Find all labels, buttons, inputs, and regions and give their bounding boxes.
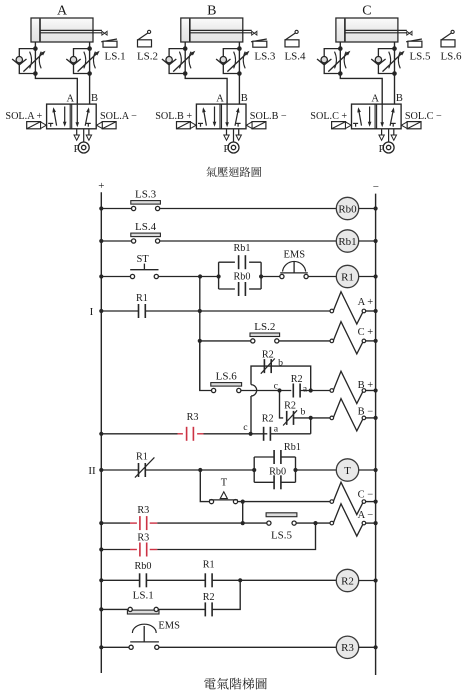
cylinder C body: [336, 18, 398, 42]
rung wire: left rail to R3 contact (red): [99, 432, 103, 436]
wire: R2-a to B+ solenoid: [300, 390, 330, 392]
svg-text:C +: C +: [358, 327, 374, 338]
wire: R2-b to B- solenoid: [294, 417, 331, 419]
svg-text:EMS: EMS: [158, 621, 180, 632]
contact Rb0 (NO): [140, 573, 147, 587]
wire: riser from rung 3 node down through rung I to LS.6 branch: [199, 277, 201, 391]
rung wire: left rail to Rb0 contact: [99, 578, 103, 582]
flow control valve (throttle + check bypass): [66, 46, 99, 75]
valve B left position flow paths: [198, 107, 216, 127]
svg-text:LS.1: LS.1: [133, 589, 154, 601]
valve B right position flow paths: [225, 104, 240, 127]
wire: left speed control to valve C port A: [340, 74, 382, 105]
wire: riser from T contact node down to A- rung: [242, 502, 244, 523]
node c (B+ branch): [277, 388, 281, 392]
wire coil Rb1 to right rail: [359, 240, 376, 242]
svg-text:LS.5: LS.5: [271, 530, 293, 542]
svg-text:R1: R1: [341, 271, 354, 283]
contact R2 (NC): [283, 410, 297, 425]
contact Rb1 (NO): [274, 450, 281, 464]
svg-text:SOL.A −: SOL.A −: [100, 111, 137, 122]
svg-text:LS.2: LS.2: [137, 50, 158, 62]
limit switch contact LS.1 (NC/closed): [127, 607, 159, 614]
svg-text:I: I: [90, 306, 94, 318]
pressure source P (valve B): [228, 129, 239, 153]
left power rail: [100, 192, 102, 673]
cylinder B piston: [189, 19, 191, 42]
svg-text:b: b: [300, 407, 305, 418]
contact R3 (NO): [140, 543, 147, 557]
cylinder C piston: [344, 19, 346, 42]
svg-text:LS.1: LS.1: [105, 50, 126, 62]
wire: R2-a to riser up to B-: [270, 433, 310, 435]
contact R2 (NO): [264, 427, 271, 441]
solenoid A+ actuator: [330, 292, 378, 324]
solenoid A− actuator: [330, 504, 378, 536]
solenoid SOL.A +: [27, 122, 47, 129]
svg-text:LS.4: LS.4: [284, 50, 306, 62]
contact R1 (NO): [139, 304, 146, 318]
wire red lead: [150, 549, 158, 551]
rung wire: EMS to coil R3: [159, 646, 336, 648]
valve A right position flow paths: [76, 104, 91, 127]
svg-text:R3: R3: [137, 532, 149, 543]
svg-text:LS.2: LS.2: [254, 321, 275, 333]
svg-text:ST: ST: [136, 254, 149, 265]
wire: LS.5 to A- solenoid: [296, 522, 330, 524]
solenoid SOL.B −: [246, 122, 266, 129]
wire: R2 contact to riser up to R2 coil rung: [212, 580, 240, 609]
5/2 valve B body: [196, 104, 246, 129]
rung wire: Rb0 to R1 contact: [146, 579, 205, 581]
wire coil R1 to right rail: [359, 276, 376, 278]
relay coil Rb1: [336, 230, 358, 252]
contact R3 (NO): [187, 427, 194, 441]
svg-text:a: a: [303, 383, 308, 394]
svg-text:B: B: [91, 93, 98, 104]
limit switch LS.3 (roller, actuated by rod): [251, 31, 267, 47]
exhaust ports (valve B): [224, 129, 242, 141]
svg-text:LS.6: LS.6: [216, 371, 238, 383]
svg-text:R1: R1: [136, 451, 148, 462]
wire: riser to LS.2: [200, 340, 251, 342]
cylinder B port stubs: [184, 42, 186, 49]
svg-text:Rb1: Rb1: [284, 442, 301, 453]
rung 2 wire: left rail to LS.4: [99, 239, 103, 243]
rung I wire: left rail to R1 contact: [99, 309, 103, 313]
wire: right speed control to valve B port B: [238, 74, 240, 105]
svg-text:A: A: [216, 94, 224, 105]
rung I wire: R1 contact to A+ solenoid: [145, 310, 330, 312]
svg-text:P: P: [223, 144, 229, 155]
svg-text:LS.3: LS.3: [254, 50, 276, 62]
svg-text:a: a: [274, 424, 279, 435]
solenoid B+ actuator: [330, 371, 378, 403]
rung wire: R3 to LS.5: [157, 522, 266, 524]
wire: riser corner to LS.6: [200, 341, 212, 391]
5/2 valve A body: [47, 104, 97, 129]
svg-text:Rb0: Rb0: [269, 467, 286, 478]
rung II wire: left rail to R1 NC contact: [99, 468, 103, 472]
relay coil T: [336, 459, 358, 481]
flow control valve (throttle + check bypass): [317, 46, 350, 75]
contact R2 (NO): [205, 602, 212, 616]
svg-text:R2: R2: [291, 374, 303, 385]
svg-text:A: A: [57, 4, 68, 19]
rung wire: left rail to EMS: [99, 645, 103, 649]
wire red lead: [197, 433, 203, 435]
svg-text:A −: A −: [358, 510, 374, 521]
svg-text:R2: R2: [284, 401, 296, 412]
cylinder C rod: [345, 29, 407, 31]
svg-text:LS.4: LS.4: [135, 221, 157, 233]
svg-text:LS.3: LS.3: [135, 189, 157, 201]
limit switch contact LS.4 (NO): [131, 233, 161, 243]
pushbutton ST (NO): [130, 264, 158, 279]
svg-text:R1: R1: [203, 559, 215, 570]
rung 2 wire: LS.4 to coil Rb1: [160, 240, 336, 242]
rung 1 wire: LS.3 to coil Rb0: [160, 208, 336, 210]
svg-text:C: C: [362, 4, 371, 19]
svg-text:B +: B +: [358, 380, 374, 391]
svg-text:Rb1: Rb1: [234, 243, 251, 254]
svg-text:Rb1: Rb1: [338, 236, 356, 248]
svg-text:C −: C −: [358, 489, 374, 500]
solenoid B− actuator: [330, 399, 378, 431]
limit switch contact LS.5 (NO): [266, 513, 297, 525]
svg-text:T: T: [344, 465, 351, 477]
right power rail: [375, 194, 377, 675]
svg-text:+: +: [98, 180, 104, 192]
rung II wire: R1 to parallel block: [145, 469, 254, 471]
rung 3 wire: ST to parallel block: [158, 276, 218, 278]
wire red lead: [150, 522, 158, 524]
contact R2 (NO): [293, 384, 300, 398]
contact Rb0 (NO): [274, 475, 281, 489]
cylinder C port stubs: [339, 42, 341, 49]
cylinder A port stubs: [34, 42, 36, 49]
svg-text:A: A: [371, 94, 379, 105]
svg-text:Rb0: Rb0: [338, 203, 357, 215]
valve A left position flow paths: [48, 107, 66, 127]
svg-text:R2: R2: [203, 592, 215, 603]
wire: LS.2 to C+ solenoid: [279, 340, 330, 342]
svg-text:P: P: [74, 144, 80, 155]
exhaust ports (valve C): [379, 129, 397, 141]
limit switch contact LS.3 (NO): [131, 201, 161, 211]
wire: riser from bottom R3 rung up to B- node: [310, 418, 312, 434]
wire red lead: [130, 522, 137, 524]
wire: LS.6 to node c: [241, 390, 291, 392]
caption: electrical ladder diagram: [204, 678, 267, 690]
svg-text:SOL.C +: SOL.C +: [310, 111, 347, 122]
rung 1 wire: left rail to LS.3: [99, 206, 103, 210]
node c2: [249, 432, 253, 436]
svg-text:SOL.B −: SOL.B −: [250, 111, 287, 122]
wire: left speed control to valve A port A: [35, 74, 77, 105]
relay coil Rb0: [336, 197, 358, 219]
rung 3 wire: block to EMS: [261, 276, 280, 278]
wire: left speed control to valve B port A: [185, 74, 227, 105]
cylinder B rod: [190, 29, 252, 31]
solenoid SOL.A −: [97, 122, 117, 129]
wire coil Rb0 to right rail: [359, 208, 376, 210]
wire: riser from rung II down to T contact: [200, 470, 209, 502]
rung 3 wire: left rail to ST: [99, 274, 103, 278]
cylinder A body: [31, 18, 93, 42]
contact R1 (NC): [135, 457, 155, 477]
limit switch LS.5 (roller, actuated by rod): [406, 31, 422, 47]
parallel block Rb1/Rb0 frame: [217, 262, 264, 289]
svg-text:c: c: [274, 380, 279, 391]
valve C right position flow paths: [380, 104, 395, 127]
rung wire: LS.1 to R2 contact: [158, 608, 205, 610]
svg-text:SOL.B +: SOL.B +: [155, 111, 192, 122]
svg-text:A: A: [67, 94, 75, 105]
limit switch LS.4 (roller lever, released): [285, 30, 299, 47]
solenoid C− actuator: [330, 482, 378, 514]
rung wire: R3 to node c2: [204, 433, 268, 435]
rung wire: left rail to R3 contact (red): [99, 521, 103, 525]
svg-text:R3: R3: [137, 505, 149, 516]
contact Rb1 (NO): [239, 255, 246, 269]
contact R2 (NC): [261, 359, 275, 374]
svg-text:T: T: [221, 477, 228, 488]
wire coil R3 to right rail: [359, 646, 376, 648]
5/2 valve C body: [352, 104, 402, 129]
pressure source P (valve C): [383, 129, 394, 153]
emergency stop EMS (NO mushroom): [129, 624, 159, 649]
svg-text:R2: R2: [262, 414, 274, 425]
limit switch contact LS.2 (NO): [250, 333, 280, 343]
flow control valve (throttle + check bypass): [12, 46, 45, 75]
wire red lead: [130, 549, 137, 551]
svg-text:B: B: [241, 93, 248, 104]
limit switch LS.6 (roller lever, released): [441, 30, 455, 47]
emergency stop EMS (NC mushroom): [280, 261, 308, 278]
rung wire: R1 to coil R2: [212, 579, 336, 581]
rung 3 wire: EMS to coil R1: [308, 276, 336, 278]
caption: pneumatic circuit diagram: [206, 167, 261, 177]
wire: right speed control to valve C port B: [394, 74, 396, 105]
svg-text:−: −: [373, 181, 379, 193]
cylinder A piston: [39, 19, 41, 42]
wire: bypass branch top (node c riser to R2-b): [251, 366, 311, 389]
wire: T contact to C- solenoid: [238, 501, 330, 503]
flow control valve (throttle + check bypass): [216, 46, 249, 75]
contact R1 (NO): [205, 573, 212, 587]
exhaust ports (valve A): [74, 129, 92, 141]
solenoid SOL.C −: [401, 122, 421, 129]
wire red lead: [178, 433, 183, 435]
svg-text:LS.6: LS.6: [440, 50, 462, 62]
svg-text:B: B: [396, 93, 403, 104]
svg-text:B −: B −: [358, 406, 374, 417]
rung wire: left rail to R3 contact (red, bypass): [99, 547, 103, 551]
wire: right speed control to valve A port B: [89, 74, 91, 105]
svg-text:SOL.A +: SOL.A +: [5, 111, 42, 122]
limit switch LS.2 (roller lever, released): [138, 30, 152, 47]
wire hop: riser c crosses LS.6 rung: [251, 385, 257, 396]
svg-text:R2: R2: [262, 349, 274, 360]
cylinder A rod: [40, 29, 102, 31]
svg-text:B: B: [207, 4, 216, 19]
svg-text:R3: R3: [341, 642, 354, 654]
svg-text:Rb0: Rb0: [234, 272, 251, 283]
svg-text:LS.5: LS.5: [409, 50, 431, 62]
pressure source P (valve A): [78, 129, 89, 153]
svg-text:SOL.C −: SOL.C −: [405, 111, 442, 122]
svg-text:c: c: [243, 422, 248, 433]
svg-text:Rb0: Rb0: [135, 561, 152, 572]
flow control valve (throttle + check bypass): [371, 46, 404, 75]
limit switch contact LS.6 (NO): [211, 383, 242, 393]
svg-text:R3: R3: [187, 412, 199, 423]
solenoid C+ actuator: [330, 322, 378, 354]
rung wire: left rail to LS.1: [99, 607, 103, 611]
rung II wire: block to coil T: [296, 469, 337, 471]
wire: node c down to B- branch: [280, 391, 284, 418]
relay coil R3: [336, 636, 358, 658]
svg-text:P: P: [379, 144, 385, 155]
cylinder B body: [181, 18, 243, 42]
valve C left position flow paths: [353, 107, 371, 127]
svg-text:b: b: [278, 357, 283, 368]
solenoid SOL.C +: [332, 122, 352, 129]
parallel block Rb1/Rb0 frame (rung II): [252, 457, 298, 482]
rung wire: R3 bypass to riser at LS.5 output: [157, 523, 315, 549]
solenoid SOL.B +: [177, 122, 197, 129]
flow control valve (throttle + check bypass): [162, 46, 195, 75]
relay coil R2: [336, 569, 358, 591]
timer contact T (delayed): [209, 492, 238, 504]
wire coil R2 to right rail: [359, 580, 376, 582]
svg-text:R2: R2: [341, 575, 354, 587]
branch dot at riser for LS.2 rung: [198, 339, 202, 343]
contact R3 (NO): [140, 516, 147, 530]
svg-text:EMS: EMS: [284, 249, 306, 260]
relay coil R1: [336, 265, 358, 287]
limit switch LS.1 (roller, actuated by rod): [101, 31, 117, 47]
svg-text:II: II: [88, 465, 96, 477]
svg-text:R1: R1: [136, 293, 148, 304]
contact Rb0 (NO): [239, 282, 246, 296]
wire coil T to right rail: [359, 469, 376, 471]
wire: riser c from hop down to bottom R3 rung: [250, 396, 252, 434]
svg-text:A +: A +: [358, 297, 374, 308]
